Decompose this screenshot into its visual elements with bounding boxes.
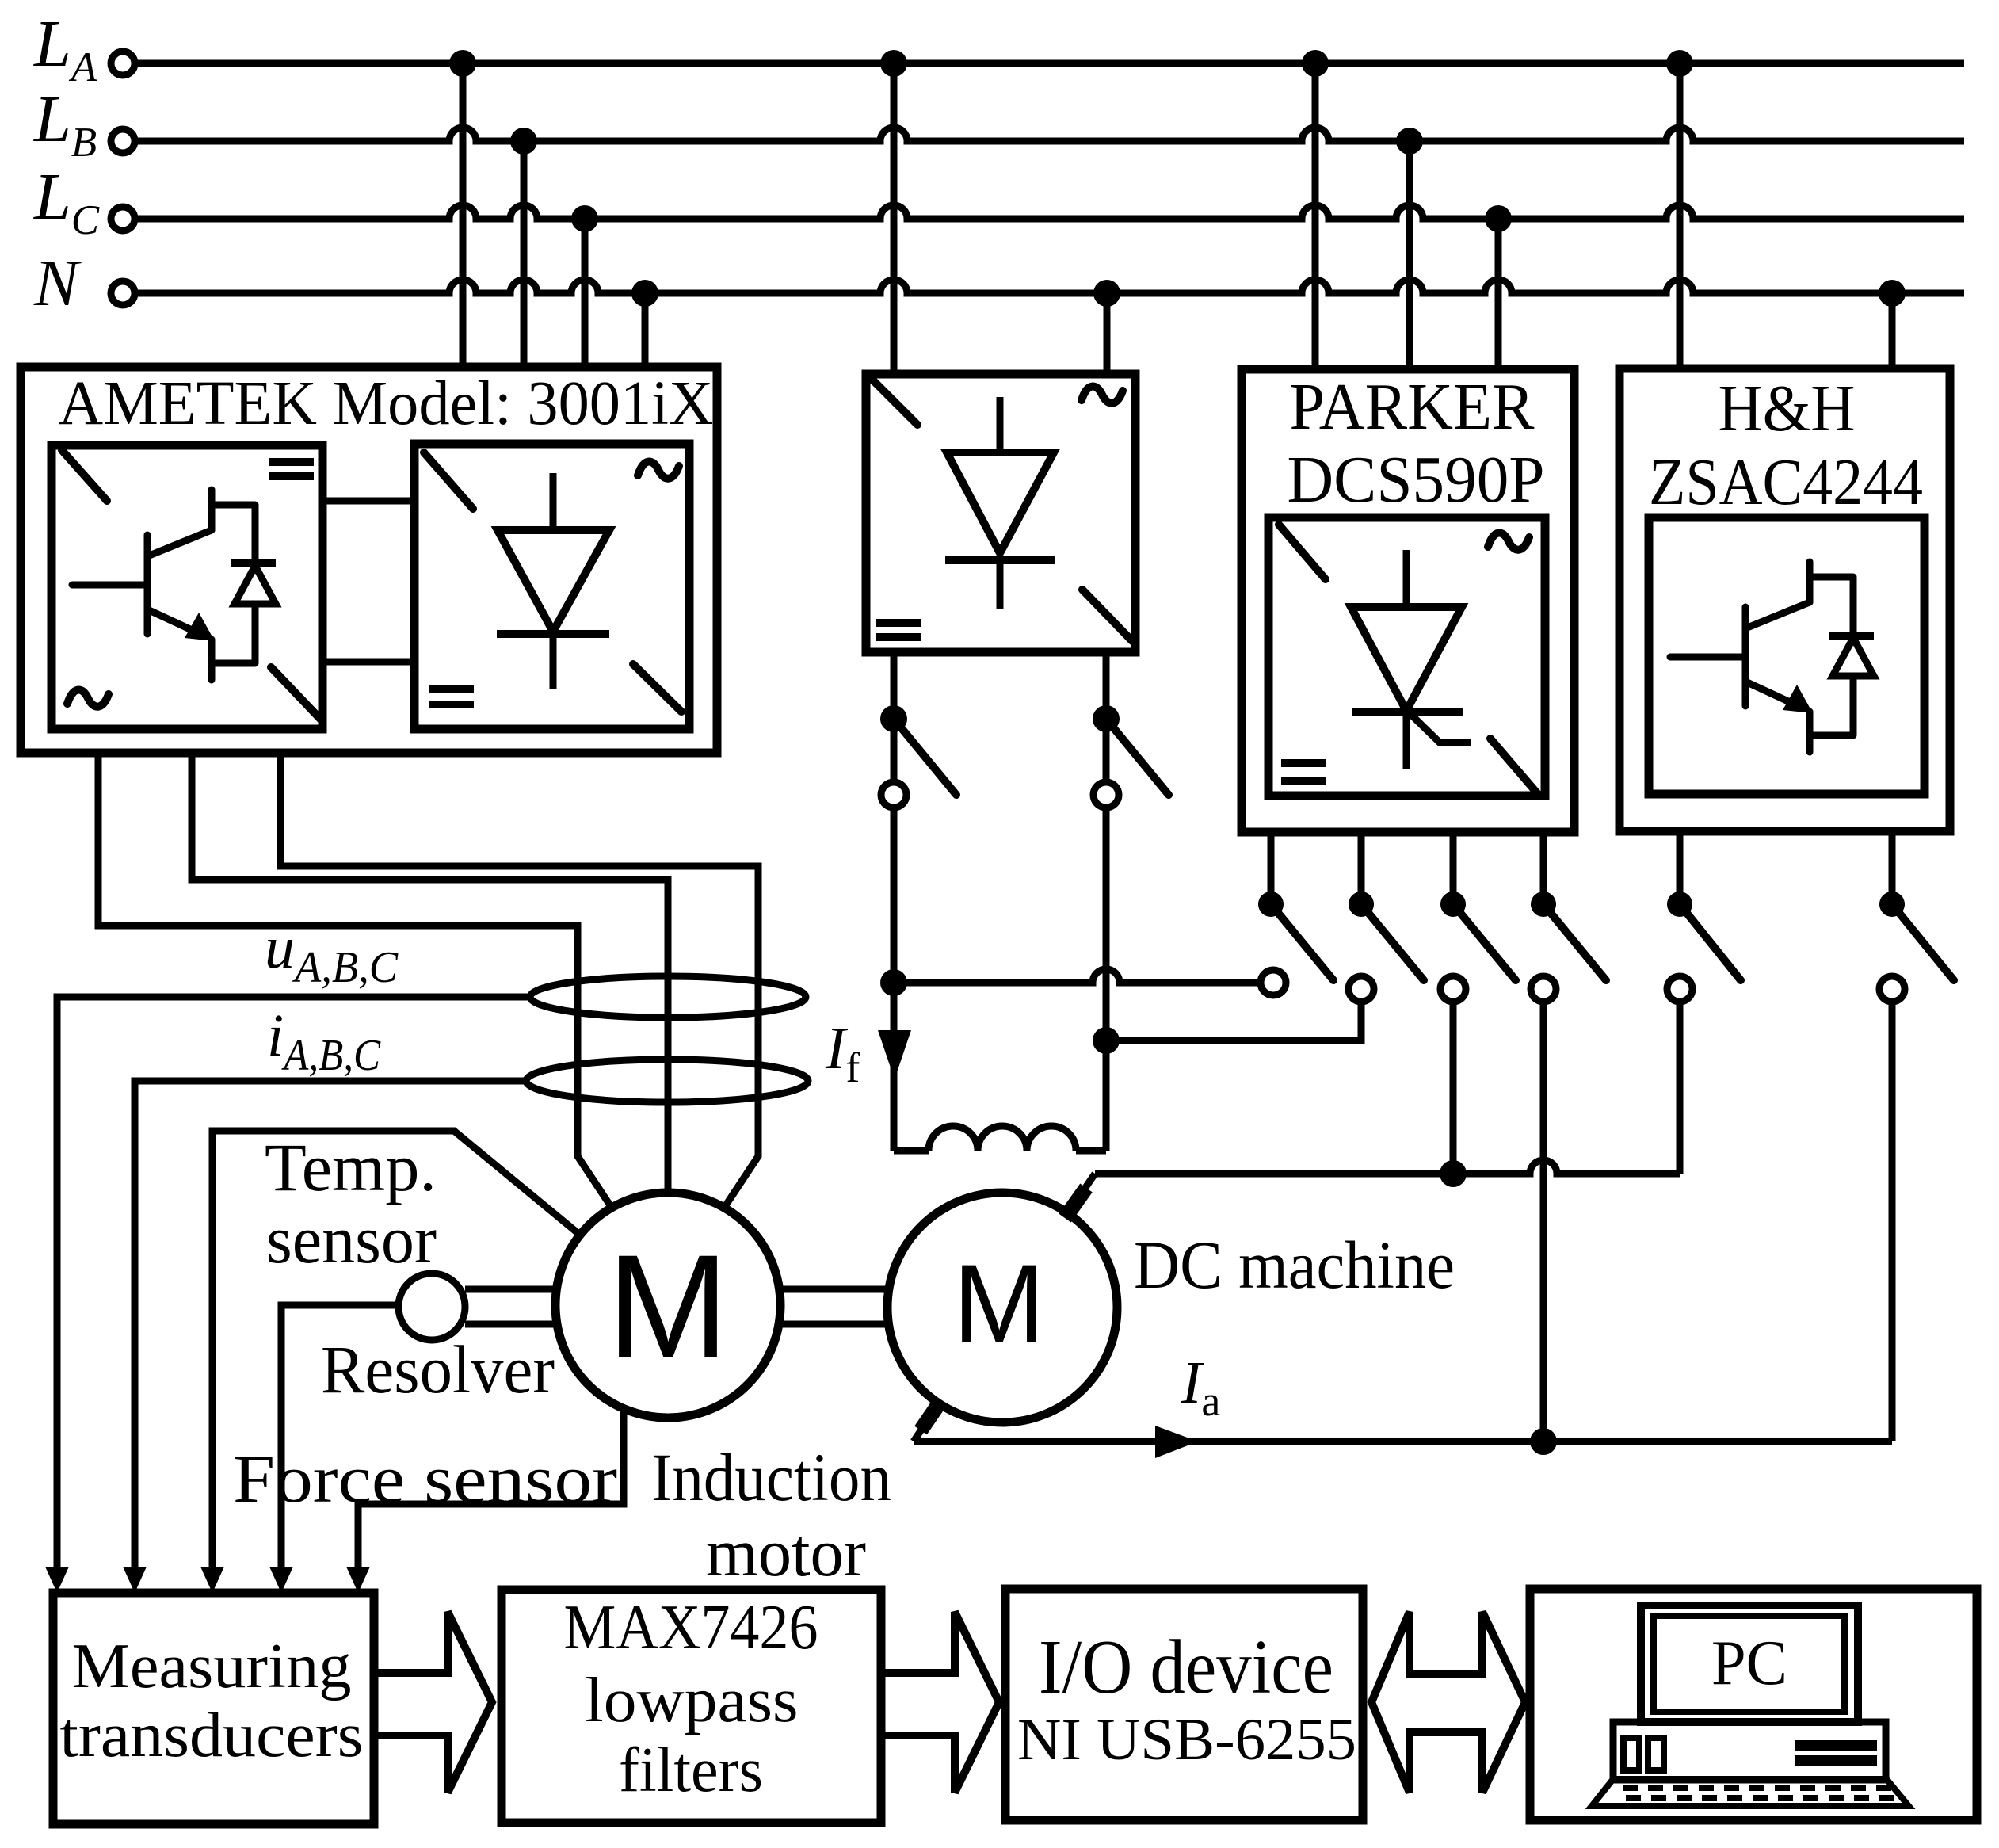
DC mark bbox=[876, 623, 921, 637]
output wire 4 bbox=[1540, 832, 1547, 904]
field winding right lead bbox=[1076, 808, 1106, 1151]
terminal LB bbox=[111, 129, 135, 153]
armature wire from S6 bbox=[1540, 1001, 1547, 1441]
switch S6 contact bbox=[1531, 976, 1556, 1002]
temp sensor wire bbox=[212, 1131, 581, 1567]
svg-text:If: If bbox=[825, 1015, 860, 1091]
H&H outer box bbox=[1619, 368, 1950, 831]
wire tap A to AMETEK bbox=[460, 63, 467, 367]
junction dot bbox=[1258, 892, 1284, 917]
resolver shaft bbox=[465, 1289, 555, 1324]
Ia return wire bbox=[914, 1438, 1892, 1445]
IO device box bbox=[1005, 1589, 1363, 1820]
resolver bbox=[399, 1273, 465, 1340]
wire tap N to AMETEK bbox=[642, 293, 649, 367]
switch S5 blade bbox=[1453, 904, 1516, 980]
AMETEK diode box (right) bbox=[414, 444, 689, 729]
bus line LC with hops bbox=[135, 205, 1964, 219]
arrow force bbox=[346, 1567, 370, 1593]
svg-text:Force sensor: Force sensor bbox=[233, 1441, 617, 1517]
terminal LC bbox=[111, 207, 135, 231]
IGBT U1 bbox=[72, 490, 276, 680]
DC mark bbox=[429, 689, 474, 704]
wire tap B to PARKER bbox=[1406, 141, 1413, 369]
PARKER outer box bbox=[1242, 369, 1574, 832]
junction dot bbox=[1666, 50, 1693, 77]
bus line LA bbox=[135, 60, 1964, 67]
block arrow 2 bbox=[881, 1612, 999, 1793]
switch S5 contact bbox=[1440, 976, 1466, 1002]
junction dot bbox=[449, 50, 476, 77]
junction dot bbox=[571, 205, 598, 232]
junction dot bbox=[1879, 892, 1905, 917]
svg-text:LA: LA bbox=[33, 7, 97, 90]
If arrow bbox=[878, 1030, 911, 1079]
junction dot bbox=[1093, 280, 1120, 307]
junction dot bbox=[510, 128, 537, 155]
corner mark bbox=[633, 664, 681, 712]
switch contact to PARKER out1 bbox=[1261, 970, 1286, 995]
junction dot bbox=[880, 969, 907, 996]
measuring transducers box bbox=[53, 1593, 374, 1824]
force sensor wire bbox=[358, 1409, 624, 1567]
svg-text:N: N bbox=[33, 246, 82, 320]
phase B output wire bbox=[192, 753, 668, 1193]
i sense wire bbox=[135, 1081, 526, 1567]
svg-text:PC: PC bbox=[1711, 1628, 1787, 1698]
field rectifier box bbox=[866, 374, 1135, 652]
junction dot bbox=[1879, 280, 1906, 307]
AC mark bbox=[1082, 387, 1123, 403]
switch S1 blade bbox=[894, 719, 956, 795]
brush top bbox=[1065, 1188, 1086, 1218]
junction dot bbox=[1440, 892, 1466, 917]
arrow u bbox=[45, 1567, 69, 1593]
DC machine M bbox=[887, 1193, 1117, 1422]
svg-text:I/O device: I/O device bbox=[1039, 1625, 1333, 1710]
junction dot bbox=[1093, 1027, 1120, 1054]
corner mark bbox=[271, 667, 321, 720]
phase A output wire bbox=[98, 753, 612, 1208]
corner mark bbox=[1490, 739, 1538, 794]
wire from S8 down bbox=[1889, 1001, 1896, 1441]
bus line N with hops bbox=[135, 280, 1964, 293]
wire from S7 down bbox=[1677, 1001, 1684, 1174]
switch S4 contact bbox=[1349, 976, 1374, 1002]
svg-text:Resolver: Resolver bbox=[321, 1331, 555, 1407]
induction motor M bbox=[555, 1193, 780, 1418]
output wire 1 bbox=[1268, 832, 1275, 904]
svg-text:iA,B,C: iA,B,C bbox=[267, 1002, 381, 1080]
PARKER inner box bbox=[1268, 517, 1545, 796]
AMETEK rectifier/inverter left box bbox=[52, 445, 322, 729]
u sense wire bbox=[57, 997, 530, 1567]
svg-text:Induction: Induction bbox=[651, 1439, 891, 1515]
junction dot bbox=[1440, 1160, 1467, 1187]
arrow i bbox=[123, 1567, 147, 1593]
field winding left lead bbox=[894, 1147, 929, 1155]
voltage pickup coil uABC bbox=[530, 976, 806, 1018]
svg-text:LC: LC bbox=[33, 160, 100, 243]
svg-text:sensor: sensor bbox=[266, 1201, 437, 1277]
PC system unit bbox=[1613, 1722, 1886, 1780]
svg-text:M: M bbox=[607, 1225, 729, 1388]
diode D2 bbox=[945, 397, 1055, 609]
svg-text:LB: LB bbox=[33, 82, 97, 166]
wire tap B to AMETEK bbox=[521, 141, 528, 367]
junction dot bbox=[1302, 50, 1329, 77]
AC mark bbox=[1488, 533, 1529, 550]
brush lead bottom bbox=[914, 1403, 939, 1441]
svg-text:motor: motor bbox=[706, 1514, 866, 1590]
switch S6 blade bbox=[1543, 904, 1606, 980]
output wire 2 bbox=[1889, 831, 1896, 904]
output wire 2 bbox=[1358, 832, 1365, 904]
arrow temp bbox=[200, 1567, 224, 1593]
wire tap A to rectifier bbox=[891, 63, 898, 374]
corner mark bbox=[424, 452, 473, 509]
svg-text:Measuring: Measuring bbox=[72, 1632, 352, 1701]
vents bbox=[1795, 1740, 1877, 1751]
switch S2 contact bbox=[1093, 782, 1119, 808]
corner mark bbox=[1279, 525, 1326, 579]
svg-text:lowpass: lowpass bbox=[586, 1666, 799, 1735]
junction dot bbox=[631, 280, 658, 307]
junction dot bbox=[1531, 892, 1556, 917]
svg-text:filters: filters bbox=[619, 1735, 763, 1805]
svg-text:ZSAC4244: ZSAC4244 bbox=[1649, 445, 1923, 519]
switch S8 blade bbox=[1892, 904, 1954, 980]
AMETEK outer box bbox=[21, 367, 717, 753]
DC link lower wire bbox=[322, 659, 414, 666]
svg-text:AMETEK Model: 3001iX: AMETEK Model: 3001iX bbox=[59, 369, 714, 438]
Ia arrow bbox=[1155, 1426, 1198, 1458]
svg-text:NI USB-6255: NI USB-6255 bbox=[1017, 1707, 1356, 1773]
brush lead top bbox=[1068, 1174, 1095, 1213]
resolver wire bbox=[281, 1305, 399, 1567]
svg-text:M: M bbox=[953, 1241, 1046, 1365]
junction dot bbox=[1485, 205, 1512, 232]
switch S3 blade bbox=[1271, 904, 1333, 980]
corner mark bbox=[868, 375, 917, 425]
switch S8 contact bbox=[1879, 976, 1905, 1002]
svg-text:Ia: Ia bbox=[1181, 1350, 1220, 1425]
output wire 3 bbox=[1450, 832, 1457, 904]
IGBT U2 bbox=[1670, 562, 1874, 752]
svg-text:transducers: transducers bbox=[60, 1701, 364, 1770]
AC mark bbox=[638, 462, 679, 479]
svg-text:H&H: H&H bbox=[1719, 372, 1856, 445]
switch S4 blade bbox=[1361, 904, 1424, 980]
junction dot bbox=[1093, 705, 1120, 732]
arrow resolver bbox=[269, 1567, 293, 1593]
armature top wire with hop bbox=[1095, 1160, 1680, 1174]
AC mark bbox=[67, 690, 109, 707]
switch S7 contact bbox=[1667, 976, 1692, 1002]
current pickup coil iABC bbox=[526, 1060, 808, 1102]
MAX7426 box bbox=[502, 1590, 881, 1823]
field winding inductor bbox=[929, 1126, 1076, 1151]
keys bbox=[1623, 1788, 1894, 1798]
field + wire bbox=[891, 807, 898, 1151]
bus line LB with hops bbox=[135, 128, 1964, 141]
junction dot bbox=[1667, 892, 1692, 917]
keyboard bbox=[1592, 1779, 1909, 1806]
junction dot bbox=[1349, 892, 1374, 917]
double block arrow bbox=[1371, 1612, 1525, 1793]
diode D1 bbox=[497, 473, 609, 689]
phase C output wire bbox=[280, 753, 758, 1208]
drive bays bbox=[1623, 1738, 1639, 1770]
junction dot bbox=[880, 50, 907, 77]
svg-text:DC machine: DC machine bbox=[1134, 1227, 1455, 1303]
svg-text:MAX7426: MAX7426 bbox=[564, 1593, 818, 1663]
DC link upper wire bbox=[322, 498, 414, 505]
shaft coupling bbox=[780, 1289, 887, 1324]
brush bottom bbox=[921, 1400, 941, 1430]
wire tap C to AMETEK bbox=[582, 219, 589, 367]
field return wire to switch2 of PARKER bbox=[1106, 1001, 1361, 1040]
armature wire from S5 bbox=[1450, 1001, 1457, 1174]
terminal LA bbox=[111, 52, 135, 75]
thyristor Q1 bbox=[1351, 550, 1471, 769]
svg-text:PARKER: PARKER bbox=[1290, 370, 1535, 444]
svg-text:DCS590P: DCS590P bbox=[1288, 443, 1545, 517]
PC box bbox=[1530, 1589, 1977, 1820]
wire tap C to PARKER bbox=[1495, 219, 1502, 369]
field link to switch1 with hop bbox=[894, 969, 1261, 983]
switch S7 blade bbox=[1680, 904, 1741, 980]
junction dot bbox=[880, 705, 907, 732]
switch S1 contact bbox=[881, 782, 906, 808]
corner mark bbox=[1082, 590, 1132, 641]
output wire 1 bbox=[1677, 831, 1684, 904]
svg-text:Temp.: Temp. bbox=[265, 1129, 437, 1205]
PC monitor bbox=[1641, 1606, 1858, 1722]
corner mark bbox=[62, 450, 107, 501]
wire tap A to PARKER bbox=[1312, 63, 1319, 369]
terminal N bbox=[111, 281, 135, 305]
DC mark bbox=[269, 462, 314, 476]
rectifier output right bbox=[1103, 652, 1110, 783]
switch S2 blade bbox=[1106, 719, 1169, 795]
junction dot bbox=[1530, 1428, 1557, 1455]
H&H inner box bbox=[1649, 517, 1925, 794]
wire tap N to rectifier bbox=[1104, 293, 1111, 374]
DC mark bbox=[1281, 763, 1326, 781]
wire tap N to H&H bbox=[1889, 293, 1896, 368]
block arrow 1 bbox=[374, 1612, 492, 1793]
junction dot bbox=[1396, 128, 1423, 155]
wire tap A to H&H bbox=[1677, 63, 1684, 368]
rectifier output left bbox=[891, 652, 898, 782]
